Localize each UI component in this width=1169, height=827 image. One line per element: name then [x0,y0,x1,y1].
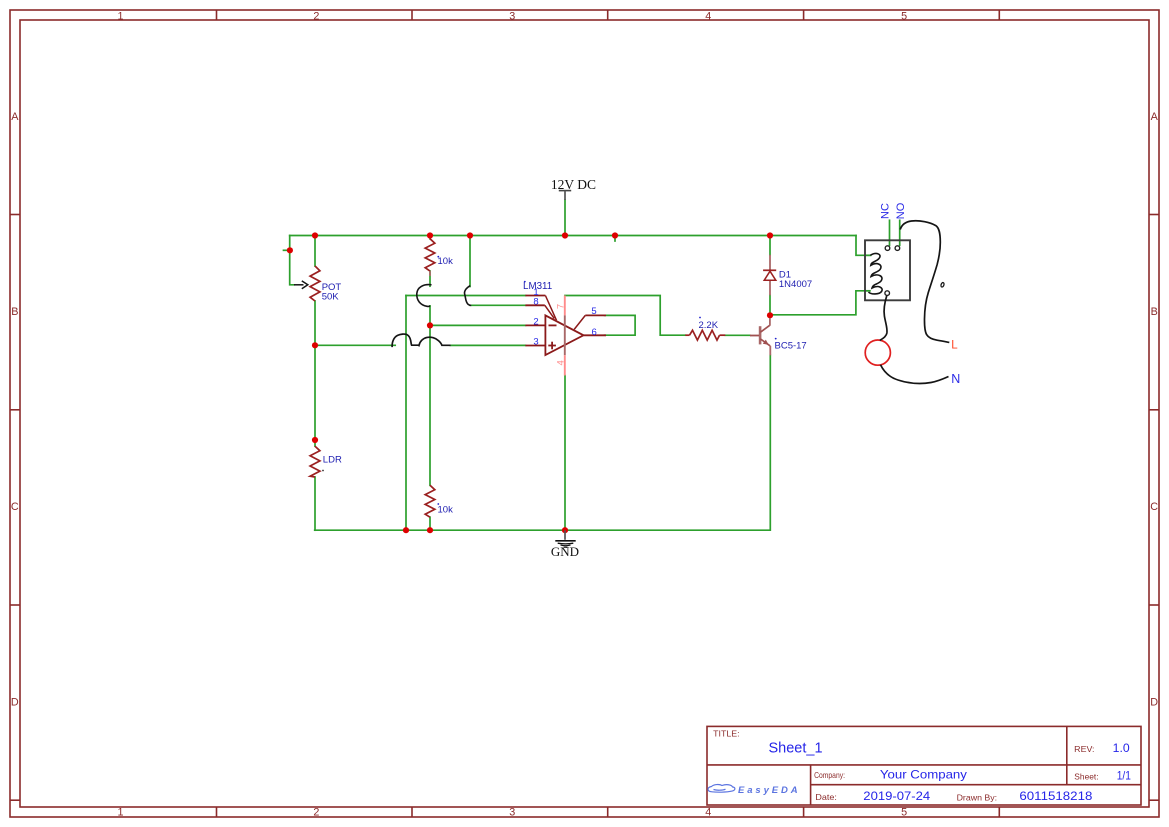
svg-text:GND: GND [551,544,579,559]
svg-text:EasyEDA: EasyEDA [738,785,801,796]
wire pin2 horizontal [430,324,525,326]
svg-text:6011518218: 6011518218 [1019,789,1092,803]
resistor R-top 10k [425,239,453,276]
WIRES [284,200,900,530]
svg-text:2: 2 [313,10,319,22]
wire 10k R3 bottom [429,517,431,530]
wire 10k R2 bottom segment [429,271,431,286]
hop vertical x470 over pin1 wire [465,286,472,306]
svg-text:5: 5 [901,807,907,819]
wire vertical x406 pin1 to gnd rail [405,296,407,531]
wire relay NC stub [889,220,891,245]
wire collector node to relay coil bottom [770,291,870,315]
wire power symbol drop [564,200,566,236]
power flag 12V DC [551,177,596,200]
svg-text:2: 2 [313,807,319,819]
svg-text:TITLE:: TITLE: [713,729,739,738]
node rail-power [562,232,568,238]
svg-text:50K: 50K [322,292,340,303]
svg-text:B: B [11,306,18,318]
node rail-stub [612,232,618,238]
svg-text:6: 6 [592,327,597,338]
svg-text:Date:: Date: [815,792,837,802]
hop pin3 wire over x406 [392,334,419,347]
wire pin1 horizontal [406,295,525,297]
wire diode bottom to collector node [769,295,771,315]
svg-text:1N4007: 1N4007 [779,279,812,290]
node rail-pot [312,232,318,238]
relay pin common terminal [885,291,890,296]
node gnd rail x565 [562,527,568,533]
node gnd rail x430 [427,527,433,533]
svg-text:2.2K: 2.2K [699,320,719,331]
wire pin3 horizontal right [450,344,525,346]
wire pin7 to 2.2K [565,296,685,336]
wire pot wiper drop [290,236,294,285]
diode D1 1N4007 [763,255,812,295]
svg-text:Sheet_1: Sheet_1 [769,741,823,757]
node rail-x470 [467,232,473,238]
relay pin NO terminal [895,246,900,251]
lamp [865,340,890,365]
wire relay coil top lead [865,254,871,256]
wire LDR bottom [314,477,316,530]
wire emitter to gnd rail [769,355,771,530]
svg-text:D: D [11,696,19,708]
svg-text:1: 1 [117,10,123,22]
svg-text:2019-07-24: 2019-07-24 [863,789,930,803]
svg-text:D: D [1150,696,1158,708]
svg-text:4: 4 [705,807,711,819]
wire vertical x430 mid [429,306,431,486]
wire relay NO stub [899,220,901,245]
wire pot bottom to LDR [314,301,316,446]
wire freehand: relay NO to L [900,221,949,343]
svg-text:3: 3 [509,10,515,22]
wire rail to diode top [769,236,771,255]
relay pin NC terminal [885,246,890,251]
wire opamp pin4 to gnd rail [564,376,566,531]
wire relay coil bottom lead [865,290,870,292]
svg-text:12V DC: 12V DC [551,177,596,192]
wire stub at pot wiper [284,249,290,251]
svg-text:LDR: LDR [323,455,342,466]
node pot bottom [312,342,318,348]
svg-text:NC: NC [880,203,892,219]
svg-text:4: 4 [705,10,711,22]
wire freehand: lamp to N [881,365,949,384]
wire pin3 horizontal left [315,344,395,346]
svg-text:C: C [1150,501,1158,513]
svg-text:1.0: 1.0 [1113,741,1130,755]
relay K1 [865,202,910,300]
svg-text:Your Company: Your Company [880,768,967,782]
svg-text:N: N [951,372,960,386]
op-amp U1 LM311 [523,281,606,376]
svg-text:B: B [1151,306,1158,318]
node rail-10k [427,232,433,238]
svg-text:A: A [11,111,19,123]
svg-text:5: 5 [591,306,596,317]
resistor 2.2K [685,317,725,341]
svg-text:Sheet:: Sheet: [1074,772,1098,782]
node pin2 [427,322,433,328]
wire 2.2K to base [725,334,750,336]
potentiometer POT 50K [294,266,341,303]
wire pot top [314,236,316,267]
wire top +12V rail [290,235,856,237]
svg-text:Company:: Company: [814,770,845,780]
JUNCTION DOTS [287,232,773,533]
EasyEDA logo [708,785,801,796]
svg-text:NO: NO [895,202,907,219]
wire pin5-pin6 loop [605,315,636,335]
svg-text:3: 3 [509,807,515,819]
svg-text:1: 1 [117,807,123,819]
wire rail to relay coil top [856,236,871,256]
node LDR top [312,437,318,443]
switch gap mark [940,282,944,287]
svg-text:Drawn By:: Drawn By: [957,793,998,803]
node wiper stub [287,247,293,253]
svg-text:8: 8 [533,297,538,308]
svg-text:3: 3 [533,337,538,348]
hop pin3 wire over x430 [419,337,451,345]
transistor Q1 BC5-17 [750,318,807,355]
ground GND [551,530,579,558]
wire freehand: relay common to lamp [880,296,887,341]
svg-text:2: 2 [533,317,538,328]
hop vertical x430 over pin1 wire [417,285,432,307]
svg-text:A: A [1151,111,1159,123]
svg-text:C: C [11,501,19,513]
node collector-diode-relay [767,312,773,318]
wire 10k R2 top [429,236,431,239]
wire bottom GND rail [315,529,770,531]
svg-text:4: 4 [556,360,567,365]
photoresistor LDR [310,446,342,477]
resistor R-bottom 10k [425,485,453,517]
wire pin8 horizontal [470,304,525,306]
node gnd rail x406 [403,527,409,533]
wire x470 rail drop [469,236,471,287]
svg-text:1/1: 1/1 [1117,768,1131,782]
wire stub on rail x615 [614,236,616,241]
relay coil [869,254,883,294]
svg-text:5: 5 [901,10,907,22]
svg-text:7: 7 [555,304,566,309]
svg-text:10k: 10k [438,256,454,267]
svg-text:10k: 10k [438,505,454,516]
svg-text:BC5-17: BC5-17 [775,341,807,352]
TITLE BLOCK [707,726,1141,805]
node rail-diode [767,232,773,238]
svg-text:REV:: REV: [1074,744,1094,754]
svg-text:L: L [951,340,958,352]
